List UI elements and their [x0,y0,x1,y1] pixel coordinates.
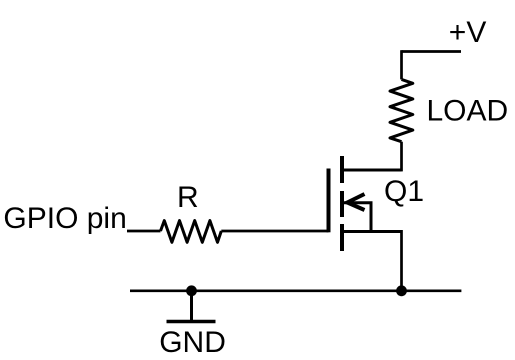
wire [221,230,328,233]
wire [127,230,161,233]
resistor R [161,221,222,243]
wire [400,50,403,79]
junction dot [186,285,197,296]
wire [400,230,403,291]
svg-text:+V: +V [449,16,487,49]
svg-text:GND: GND [159,326,226,359]
svg-text:GPIO pin: GPIO pin [3,202,126,235]
svg-text:R: R [177,181,199,214]
transistor Q1 [329,156,402,251]
resistor LOAD [390,79,413,141]
wire [402,50,462,53]
svg-text:Q1: Q1 [384,175,424,208]
wire [400,142,403,172]
junction dot [396,285,407,296]
wire ground rail [130,289,461,292]
svg-text:LOAD: LOAD [427,94,509,127]
ground [167,291,216,322]
